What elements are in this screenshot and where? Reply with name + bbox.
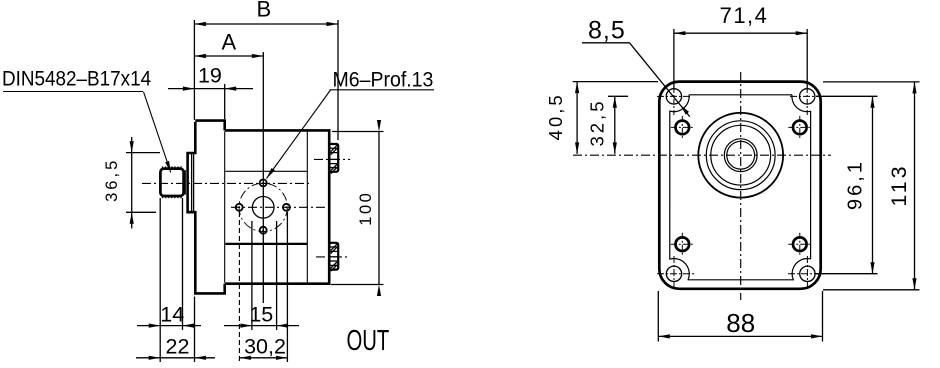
svg-text:30,2: 30,2 — [244, 335, 286, 359]
horizontal centerline front view — [573, 154, 831, 156]
body internal line upper — [226, 170, 308, 172]
svg-text:15: 15 — [249, 302, 273, 326]
flange-body joint line — [224, 132, 226, 283]
bolt hole left — [236, 204, 243, 211]
svg-text:32,5: 32,5 — [586, 98, 607, 146]
svg-text:19: 19 — [198, 64, 222, 88]
pump body (side view) — [225, 130, 330, 283]
bottom port fitting — [330, 243, 338, 270]
dimension 100 — [332, 131, 384, 133]
mounting-circle vertical centerline / extension of A and 30,2 — [262, 52, 264, 303]
top port fitting — [330, 144, 338, 172]
dimension B — [193, 20, 195, 120]
dimension 30,2 — [238, 212, 240, 362]
bottom port centerline — [316, 256, 350, 258]
bolt hole bottom — [260, 227, 267, 234]
splined shaft end — [160, 169, 183, 196]
vertical centerline front view — [740, 72, 742, 300]
dimension 71,4 — [673, 29, 675, 89]
dimension 36,5 — [126, 152, 160, 154]
threaded hole bottom-left — [671, 243, 694, 245]
svg-text:113: 113 — [887, 163, 911, 206]
top port hatch — [331, 145, 337, 151]
hub boss on flange — [188, 122, 196, 293]
svg-text:M6–Prof.13: M6–Prof.13 — [333, 69, 434, 92]
bolt hole top — [260, 179, 267, 186]
body internal joint vertical — [306, 132, 308, 283]
dimension 14 — [159, 198, 161, 362]
dimension 19 — [224, 84, 226, 119]
bottom port hatch — [331, 244, 337, 250]
svg-text:100: 100 — [357, 191, 375, 226]
svg-text:A: A — [222, 29, 237, 54]
dimension 113 — [823, 81, 920, 83]
svg-text:OUT: OUT — [347, 325, 390, 357]
svg-text:B: B — [256, 0, 271, 21]
shaft centerline — [142, 182, 312, 184]
bolt circle (dash-dot) — [239, 183, 287, 231]
svg-text:71,4: 71,4 — [720, 3, 769, 28]
shaft end face line — [184, 170, 186, 194]
top port centerline — [314, 158, 350, 160]
svg-text:96,1: 96,1 — [844, 159, 866, 210]
svg-text:40,5: 40,5 — [545, 92, 566, 140]
threaded hole top-right — [788, 126, 811, 128]
center pilot circle — [252, 197, 274, 219]
corner hole bottom-left — [666, 266, 681, 281]
corner hole top-left — [666, 89, 681, 104]
corner hole bottom-right — [800, 266, 815, 281]
svg-text:DIN5482–B17x14: DIN5482–B17x14 — [2, 67, 151, 90]
dimension 22 — [194, 297, 196, 363]
bolt hole right — [283, 204, 290, 211]
hub chamfer lines — [191, 154, 193, 212]
mounting flange plate (side view) — [195, 121, 224, 131]
dimension 88 — [657, 291, 659, 342]
threaded hole bottom-right — [788, 243, 811, 245]
dimension 40,5 — [573, 81, 658, 83]
svg-text:14: 14 — [160, 302, 184, 326]
central boss circles — [698, 113, 783, 198]
threaded hole top-left — [671, 126, 694, 128]
svg-text:36,5: 36,5 — [103, 158, 121, 202]
dimension 15 — [251, 221, 253, 330]
inner body contour with concave corner arcs — [670, 95, 811, 280]
dimension 96,1 — [816, 95, 878, 97]
body internal line lower — [226, 243, 308, 245]
svg-text:22: 22 — [166, 335, 190, 359]
dimension 32,5 — [608, 95, 628, 97]
svg-text:8,5: 8,5 — [588, 17, 626, 45]
mounting-circle horizontal centerline — [231, 206, 326, 208]
dimension A — [194, 55, 263, 57]
svg-text:88: 88 — [726, 308, 755, 338]
corner hole top-right — [800, 89, 815, 104]
front flange plate outline — [659, 82, 820, 289]
